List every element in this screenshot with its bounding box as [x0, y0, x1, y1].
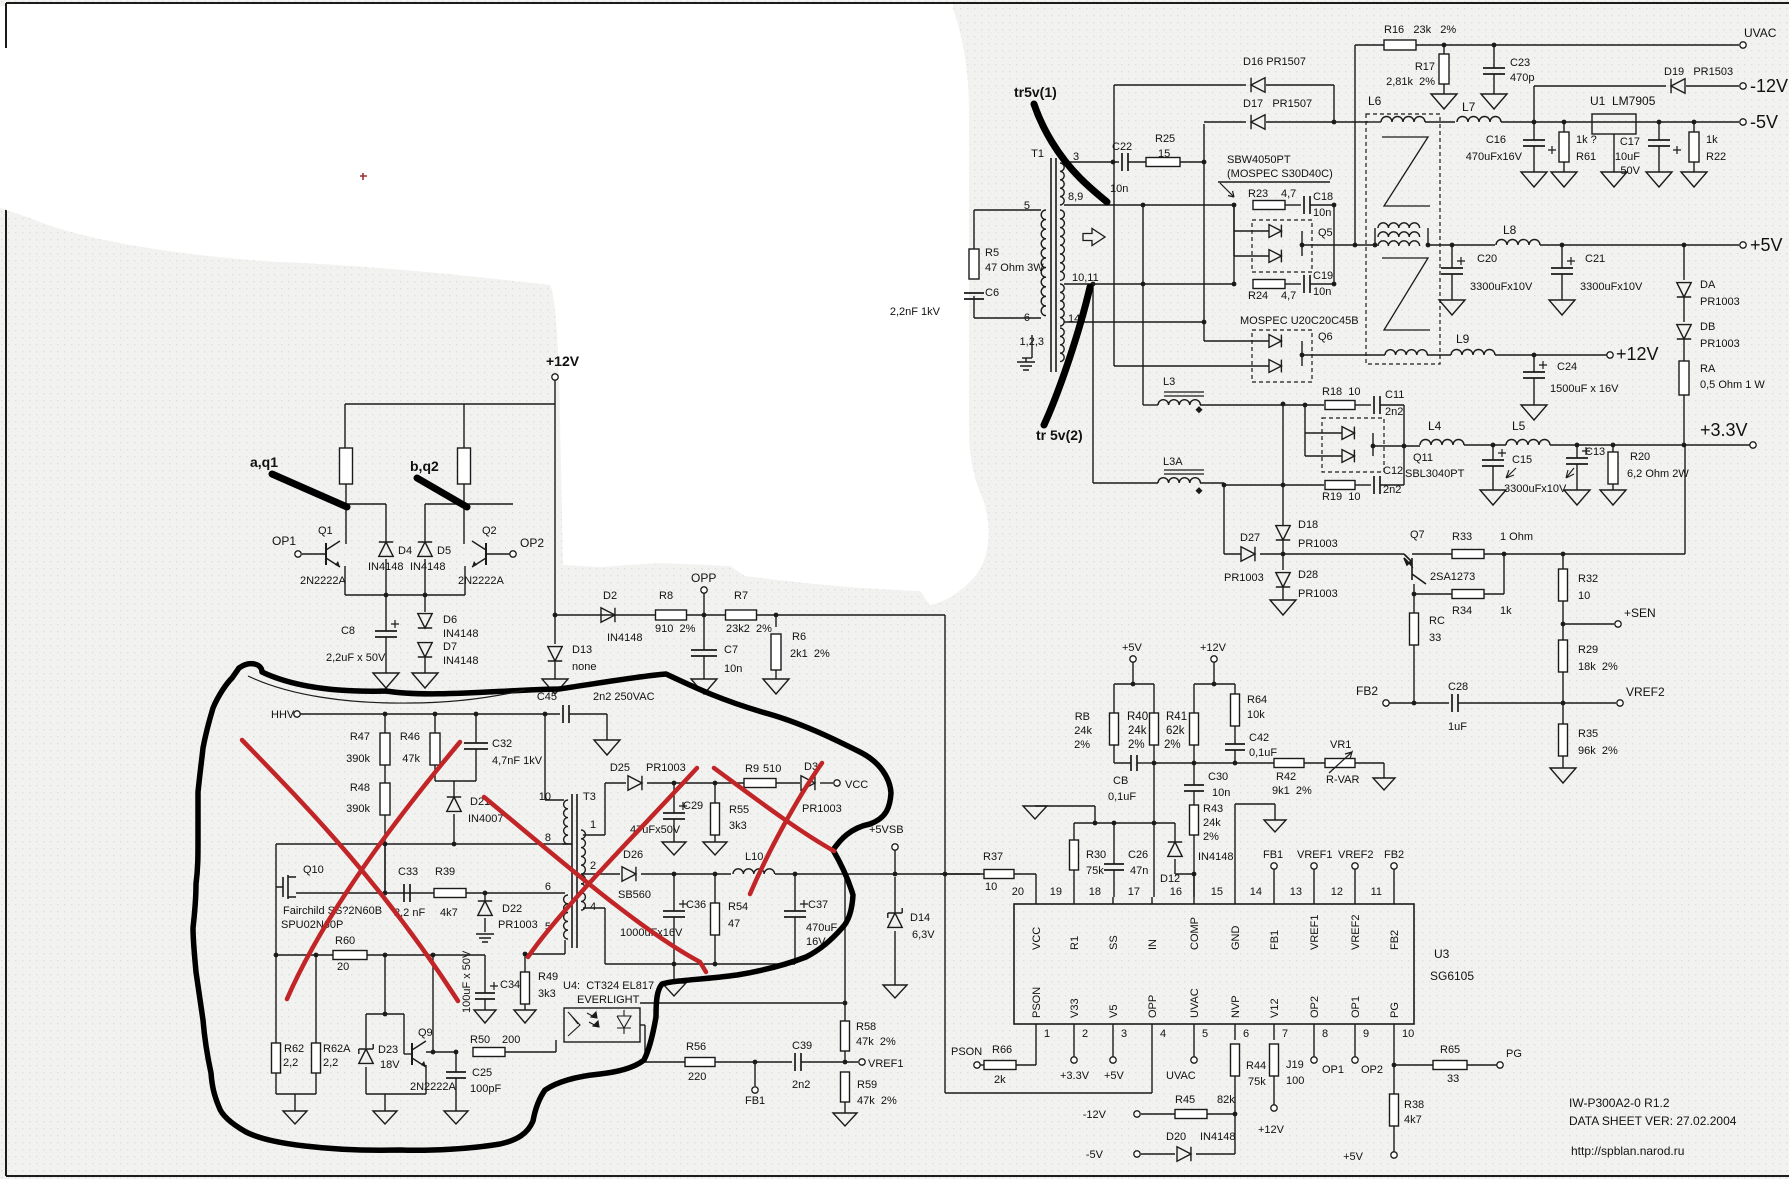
node -5V small: [1134, 1151, 1140, 1157]
pin 7 V12 stub: [1273, 1024, 1275, 1040]
wire +5V rail: [1428, 244, 1495, 246]
svg-text:R65: R65: [1440, 1044, 1460, 1056]
svg-text:Q10: Q10: [303, 864, 324, 876]
svg-text:IN4148: IN4148: [607, 632, 642, 644]
svg-text:PR1003: PR1003: [802, 803, 842, 815]
svg-text:C16: C16: [1486, 134, 1506, 146]
svg-text:PR1003: PR1003: [1298, 588, 1338, 600]
svg-text:2,2nF 1kV: 2,2nF 1kV: [890, 306, 941, 318]
wire gate row y844: [276, 843, 572, 845]
wire D6D7 drop: [424, 595, 426, 612]
ground under R22: [1681, 172, 1707, 187]
svg-text:R49: R49: [538, 971, 558, 983]
svg-text:D13: D13: [572, 644, 592, 656]
capacitor C6: [964, 293, 984, 299]
wire OP2 lead: [486, 553, 510, 555]
optocoupler internals: [568, 1012, 580, 1036]
resistor R54: [714, 874, 716, 903]
svg-text:2N2222A: 2N2222A: [300, 575, 347, 587]
svg-text:10: 10: [985, 881, 997, 893]
node -5V: [1740, 119, 1746, 125]
wire RB drop & CB: [1113, 745, 1115, 763]
wire D13 top: [554, 615, 556, 644]
junction +12V/D2 row: [553, 613, 558, 618]
svg-text:L7: L7: [1462, 100, 1476, 114]
resistor R40: [1150, 713, 1159, 745]
svg-text:+3.3V: +3.3V: [1060, 1070, 1090, 1082]
svg-text:14: 14: [1250, 886, 1262, 898]
svg-text:R34: R34: [1452, 605, 1472, 617]
svg-text:R32: R32: [1578, 573, 1598, 585]
resistor a (Q1 collector): [340, 448, 353, 484]
diode Q5b: [1269, 250, 1281, 263]
ground under D23/Q9: [373, 1111, 397, 1124]
svg-text:82k: 82k: [1217, 1094, 1235, 1106]
svg-text:+5V: +5V: [1750, 235, 1783, 255]
svg-text:R30: R30: [1086, 849, 1106, 861]
wire resistor a drop: [344, 404, 346, 448]
wire R62 bottom bus: [276, 1093, 316, 1095]
diode D12: [1174, 823, 1176, 843]
ground under C20: [1439, 300, 1465, 315]
node VREF1: [859, 1059, 865, 1065]
svg-text:IN4148: IN4148: [1200, 1131, 1235, 1143]
svg-text:IW-P300A2-0 R1.2: IW-P300A2-0 R1.2: [1569, 1096, 1670, 1110]
wire x1224 down from R19 row: [1223, 485, 1225, 554]
wire optobox top right to R58 node: [640, 1002, 845, 1004]
svg-text:R38: R38: [1404, 1099, 1424, 1111]
wire resistor b drop: [463, 404, 465, 448]
resistor R45 row: [1141, 1113, 1175, 1115]
svg-text:D20: D20: [1166, 1131, 1186, 1143]
wire D28 vertical: [1282, 540, 1284, 570]
svg-text:SBL3040PT: SBL3040PT: [1405, 468, 1465, 480]
terminal V33 bottom: [1073, 1040, 1075, 1057]
wire bottom bus of T3 cell: [605, 963, 795, 965]
svg-text:10n: 10n: [1212, 787, 1230, 799]
wire D16-D17 vertical: [1333, 85, 1335, 122]
svg-text:C33: C33: [398, 866, 418, 878]
svg-text:PR1003: PR1003: [1700, 296, 1740, 308]
wire Q6 output: [1302, 354, 1385, 356]
pin 2 V33 stub: [1073, 1024, 1075, 1040]
wire T3 pin6: [296, 892, 565, 894]
svg-text:10,11: 10,11: [1072, 272, 1099, 284]
svg-text:R20: R20: [1630, 451, 1650, 463]
svg-text:+12V: +12V: [546, 353, 580, 369]
resistor R61: [1562, 120, 1567, 125]
svg-text:75k: 75k: [1248, 1076, 1266, 1088]
wire Q9 collector to R50 row: [426, 1051, 458, 1053]
diode D13: [548, 647, 562, 661]
wire R16 rail: [1354, 45, 1356, 245]
resistor R65: [1394, 1064, 1434, 1066]
svg-text:8,9: 8,9: [1068, 191, 1083, 203]
pin 16 COMP stub: [1193, 897, 1195, 904]
svg-text:L5: L5: [1512, 419, 1526, 433]
svg-text:R37: R37: [983, 851, 1003, 863]
wire Q5 output: [1302, 244, 1355, 246]
svg-text:R22: R22: [1706, 151, 1726, 163]
rectifier Q11 dashed box: [1322, 418, 1384, 472]
svg-text:VCC: VCC: [845, 779, 868, 791]
capacitor C11: [1374, 396, 1380, 414]
svg-text:1: 1: [590, 819, 596, 831]
wire D27 row to Q7: [1283, 553, 1404, 555]
svg-text:L10: L10: [745, 851, 763, 863]
node -12V small: [1134, 1111, 1140, 1117]
svg-text:C19: C19: [1313, 270, 1333, 282]
node +12V: [1607, 352, 1613, 358]
node FB1: [754, 1062, 756, 1086]
capacitor C13: [1575, 443, 1580, 448]
svg-text:SS: SS: [1108, 935, 1120, 950]
svg-text:C22: C22: [1112, 141, 1132, 153]
svg-text:390k: 390k: [346, 753, 370, 765]
inductor L9: [1451, 350, 1495, 356]
svg-text:DATA SHEET VER: 27.02.2004: DATA SHEET VER: 27.02.2004: [1569, 1114, 1737, 1128]
svg-text:FB1: FB1: [745, 1095, 765, 1107]
resistor R64: [1231, 694, 1240, 726]
svg-text:b,q2: b,q2: [410, 458, 439, 474]
svg-text:Q11: Q11: [1413, 452, 1433, 464]
svg-text:4,7: 4,7: [1281, 290, 1296, 302]
svg-text:PR1003: PR1003: [1298, 538, 1338, 550]
ground under D13: [542, 679, 568, 694]
transformer T1 core: [1050, 158, 1052, 372]
wire T3 pin8: [562, 843, 572, 845]
diode D14 zener: [894, 877, 896, 914]
svg-text:510: 510: [763, 763, 781, 775]
diode D26: [622, 867, 636, 881]
T3 secondary winding 2-4: [581, 875, 585, 910]
svg-text:UVAC: UVAC: [1744, 26, 1777, 40]
node VCC: [834, 780, 840, 786]
svg-text:2: 2: [1082, 1028, 1088, 1040]
svg-text:tr 5v(2): tr 5v(2): [1036, 427, 1083, 443]
resistor R7: [726, 610, 757, 620]
ground under D7: [412, 673, 438, 688]
capacitor C23: [1493, 45, 1495, 68]
ground under C23: [1481, 94, 1507, 109]
wire +12V vertical: [554, 380, 556, 615]
svg-text:+5V: +5V: [1343, 1151, 1364, 1163]
svg-text:100pF: 100pF: [470, 1083, 501, 1095]
resistor R44: [1231, 1044, 1240, 1076]
svg-text:OPP: OPP: [691, 571, 716, 585]
annotation black blob outline: [193, 664, 891, 1151]
pin 19 R1 stub: [1073, 897, 1075, 904]
wire Q1 collector: [345, 504, 347, 544]
svg-text:R56: R56: [686, 1041, 706, 1053]
junction R24 left: [1232, 282, 1237, 287]
svg-text:2,81k 2%: 2,81k 2%: [1386, 76, 1435, 88]
capacitor C24: [1532, 353, 1537, 358]
svg-text:tr5v(1): tr5v(1): [1014, 84, 1057, 100]
terminal OP2: [510, 551, 516, 557]
svg-text:24k: 24k: [1128, 725, 1147, 737]
wire pin 10,11 row: [1064, 283, 1204, 285]
wire R18 row: [1290, 404, 1324, 406]
ground under C34: [474, 1010, 496, 1023]
capacitor C30: [1193, 763, 1195, 785]
diode D3: [801, 776, 815, 790]
terminal V5 bottom: [1112, 1040, 1114, 1057]
resistor R34 row: [1414, 593, 1452, 595]
resistor R16: [1384, 40, 1416, 50]
resistor R30: [1073, 823, 1075, 840]
svg-text:100uF x 50V: 100uF x 50V: [461, 950, 473, 1013]
wire Q2 collector line b: [425, 503, 513, 505]
svg-text:a,q1: a,q1: [250, 454, 278, 470]
wire OP1 lead: [302, 553, 326, 555]
svg-text:D17 PR1507: D17 PR1507: [1243, 98, 1312, 110]
svg-text:J19: J19: [1286, 1059, 1304, 1071]
wire vertical x1143: [1142, 205, 1144, 284]
svg-text:VREF2: VREF2: [1338, 849, 1373, 861]
resistor R43: [1190, 805, 1199, 835]
node +3.3V: [1750, 442, 1756, 448]
capacitor C37: [794, 874, 796, 911]
svg-text:10: 10: [1578, 590, 1590, 602]
svg-text:8: 8: [545, 832, 551, 844]
underline arrow: [1218, 181, 1330, 183]
T3 secondary winding 1-2: [581, 830, 585, 874]
junction R6: [774, 613, 779, 618]
wire R19 row: [1224, 484, 1324, 486]
svg-text:1500uF x 16V: 1500uF x 16V: [1550, 383, 1619, 395]
wire top rail Q1Q2: [345, 403, 555, 405]
transformer T1 primary winding: [1041, 210, 1046, 316]
svg-text:D4: D4: [398, 545, 412, 557]
wire D23/Q9 top split: [366, 1013, 404, 1015]
svg-text:2n2: 2n2: [792, 1079, 810, 1091]
svg-text:U4: CT324 EL817: U4: CT324 EL817: [563, 980, 654, 992]
svg-text:VREF1: VREF1: [868, 1058, 903, 1070]
wire R41 drop: [1193, 745, 1195, 763]
svg-text:10n: 10n: [1313, 207, 1331, 219]
svg-text:NVP: NVP: [1230, 995, 1242, 1018]
svg-text:C8: C8: [341, 625, 355, 637]
svg-text:PG: PG: [1506, 1048, 1522, 1060]
svg-text:R48: R48: [350, 782, 370, 794]
ground under C24: [1521, 405, 1547, 420]
svg-text:C7: C7: [724, 644, 738, 656]
wire D18 vertical: [1282, 404, 1284, 525]
resistor R50: [473, 1048, 505, 1057]
bus R30/C26: [1074, 822, 1175, 824]
svg-text:R43: R43: [1203, 803, 1223, 815]
annotation thin scribble near blob top: [248, 676, 525, 703]
pin 5 UVAC stub: [1193, 1024, 1195, 1040]
ground under R20: [1600, 490, 1626, 505]
wire HHV drop to T3 pin10: [544, 714, 546, 800]
svg-text:10: 10: [1402, 1028, 1414, 1040]
diode Q5a: [1269, 225, 1281, 238]
capacitor C8: [375, 631, 397, 637]
svg-text:PR1003: PR1003: [1700, 338, 1740, 350]
resistor R35: [1559, 724, 1568, 756]
wire Q1 collector line a: [346, 503, 386, 505]
capacitor C22: [1122, 153, 1128, 171]
T3 primary winding lower: [564, 895, 568, 939]
transformer T1 secondary winding: [1060, 163, 1064, 205]
wire R44 down to D20: [1234, 1114, 1236, 1154]
page border bottom: [6, 1175, 1789, 1177]
node -12V: [1740, 83, 1746, 89]
svg-text:R9: R9: [745, 763, 759, 775]
terminal FB2 top: [1391, 863, 1397, 869]
svg-text:-5V: -5V: [1086, 1149, 1104, 1161]
svg-text:1 Ohm: 1 Ohm: [1500, 531, 1533, 543]
svg-text:220: 220: [688, 1071, 706, 1083]
capacitor C33: [404, 884, 410, 902]
ground under C29: [662, 842, 686, 855]
T3 primary winding upper: [564, 800, 568, 844]
capacitor C25: [455, 1052, 457, 1072]
terminal +12V: [552, 374, 558, 380]
svg-text:Q9: Q9: [418, 1027, 433, 1039]
svg-text:R64: R64: [1247, 694, 1267, 706]
inductor L7: [1457, 117, 1501, 123]
svg-text:17: 17: [1128, 886, 1140, 898]
svg-text:0,1uF: 0,1uF: [1108, 791, 1136, 803]
pin 18 SS stub: [1112, 897, 1114, 904]
svg-text:C37: C37: [808, 899, 828, 911]
wire Q7 collector down: [1413, 584, 1415, 594]
resistor R62A: [314, 953, 319, 958]
svg-text:T1: T1: [1031, 148, 1044, 160]
wire Q2 emitter: [464, 566, 466, 595]
white-out blob top-left: [0, 6, 989, 605]
svg-text:50V: 50V: [1620, 165, 1640, 177]
comp row y763: [1153, 762, 1256, 764]
svg-text:2k: 2k: [994, 1074, 1006, 1086]
wire emitter row: [345, 594, 465, 596]
ground under C21: [1549, 300, 1575, 315]
svg-text:IN4148: IN4148: [1198, 851, 1233, 863]
svg-text:3300uFx10V: 3300uFx10V: [1580, 281, 1643, 293]
wire C32/R46 node: [435, 780, 476, 782]
svg-text:R19 10: R19 10: [1322, 491, 1361, 503]
inductor L6 top winding: [1381, 117, 1425, 123]
diode D28: [1276, 573, 1290, 587]
svg-text:HHV: HHV: [271, 709, 295, 721]
inductor L10: [733, 869, 775, 874]
svg-text:C34: C34: [500, 979, 520, 991]
svg-text:R62A: R62A: [323, 1043, 351, 1055]
pin 11 FB2 stub: [1393, 897, 1395, 904]
svg-text:C29: C29: [683, 800, 703, 812]
svg-text:470uF: 470uF: [806, 922, 837, 934]
svg-text:10n: 10n: [1110, 183, 1128, 195]
svg-text:16: 16: [1170, 886, 1182, 898]
svg-text:C28: C28: [1448, 681, 1468, 693]
svg-text:L4: L4: [1428, 419, 1442, 433]
capacitor C15: [1491, 443, 1496, 448]
svg-text:PR1003: PR1003: [1224, 572, 1264, 584]
svg-text:C13: C13: [1585, 446, 1605, 458]
svg-text:D14: D14: [910, 912, 930, 924]
svg-text:L6: L6: [1368, 94, 1382, 108]
resistor R60: [333, 951, 367, 960]
ground under R55: [703, 842, 727, 855]
capacitor C21: [1560, 243, 1565, 248]
resistor R62: [275, 955, 277, 1043]
wire +3.3V to R33 row: [1684, 445, 1686, 554]
svg-text:2%: 2%: [1074, 739, 1090, 751]
svg-text:V12: V12: [1269, 998, 1281, 1018]
svg-text:R50: R50: [470, 1034, 490, 1046]
diode DA: [1682, 243, 1687, 248]
svg-text:4k7: 4k7: [1404, 1114, 1422, 1126]
capacitor C32: [475, 714, 477, 743]
svg-text:Q7: Q7: [1410, 529, 1425, 541]
diode D20: [1141, 1153, 1175, 1155]
pin 14 FB1 stub: [1273, 897, 1275, 904]
resistor R47: [384, 714, 386, 733]
diode D21: [453, 781, 455, 797]
page border top: [6, 2, 1789, 4]
svg-text:C26: C26: [1128, 849, 1148, 861]
svg-text:R47: R47: [350, 731, 370, 743]
ground under C8: [373, 673, 399, 688]
svg-text:PG: PG: [1389, 1002, 1401, 1018]
svg-text:7: 7: [1282, 1028, 1288, 1040]
optocoupler U4 box: [564, 1008, 640, 1042]
bus +12V to R41/R64: [1194, 683, 1235, 685]
svg-text:DA: DA: [1700, 279, 1716, 291]
wire Q7 emitter to R33: [1412, 553, 1452, 555]
svg-text:1: 1: [1044, 1028, 1050, 1040]
svg-text:470p: 470p: [1510, 72, 1534, 84]
svg-text:18V: 18V: [380, 1059, 400, 1071]
svg-text:RB: RB: [1075, 711, 1090, 723]
svg-text:http://spblan.narod.ru: http://spblan.narod.ru: [1571, 1144, 1684, 1158]
wire R34 up to R33 junction: [1503, 554, 1505, 594]
wire x433 down to Q9 collector: [432, 955, 434, 1052]
node +SEN: [1563, 623, 1614, 625]
svg-text:R62: R62: [284, 1043, 304, 1055]
wire D4 bottom: [385, 559, 387, 595]
svg-text:V33: V33: [1069, 998, 1081, 1018]
svg-text:R5: R5: [985, 247, 999, 259]
svg-text:11: 11: [1371, 886, 1382, 898]
svg-text:C21: C21: [1585, 253, 1605, 265]
resistor R23: [1253, 201, 1285, 210]
svg-text:EVERLIGHT: EVERLIGHT: [577, 994, 640, 1006]
capacitor C29: [673, 783, 675, 813]
svg-text:VCC: VCC: [1031, 927, 1043, 950]
annotation red X left stroke B: [287, 742, 460, 999]
svg-text:C15: C15: [1512, 454, 1532, 466]
resistor R25: [1128, 161, 1148, 163]
wire R40 drop: [1153, 745, 1155, 763]
page border left: [5, 3, 7, 1176]
pin 9 OP1 stub: [1354, 1024, 1356, 1040]
capacitor C39: [795, 1053, 801, 1071]
svg-text:3k3: 3k3: [729, 820, 747, 832]
rectifier Q6 dashed box: [1252, 330, 1312, 382]
svg-text:2,2uF x 50V: 2,2uF x 50V: [326, 652, 386, 664]
capacitor C36: [673, 874, 675, 911]
svg-text:R66: R66: [992, 1044, 1012, 1056]
ground under R17: [1431, 94, 1457, 109]
svg-text:47k 2%: 47k 2%: [856, 1036, 896, 1048]
resistor R56: [685, 1058, 715, 1067]
svg-text:L9: L9: [1456, 332, 1470, 346]
terminal UVAC bottom: [1193, 1040, 1195, 1057]
